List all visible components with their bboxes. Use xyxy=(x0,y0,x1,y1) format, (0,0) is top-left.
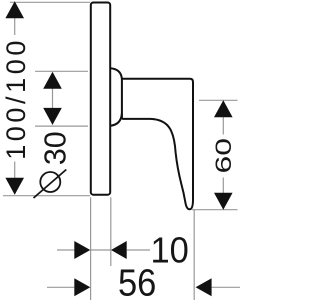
svg-text:30: 30 xyxy=(39,131,73,165)
svg-text:60: 60 xyxy=(211,138,236,173)
svg-text:56: 56 xyxy=(118,261,156,300)
svg-text:100/100: 100/100 xyxy=(1,37,31,160)
